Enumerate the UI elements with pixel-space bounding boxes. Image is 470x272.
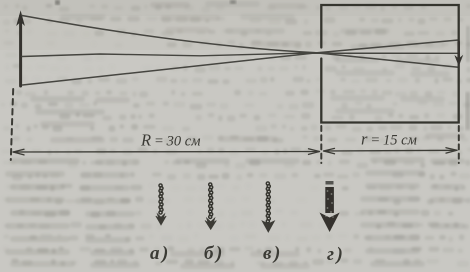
image arrow on back wall (small, pointing down) bbox=[455, 42, 463, 66]
camera box (left wall with pinhole gap, top, right, bottom) bbox=[321, 5, 458, 123]
option arrow b) : thin chain, ragged head bbox=[205, 183, 216, 230]
dimension line r (pinhole to back wall) bbox=[324, 148, 458, 154]
svg-text:а): а) bbox=[150, 243, 168, 264]
dashed extension below pinhole wall bbox=[320, 126, 322, 163]
dimension line R (object to pinhole) bbox=[13, 149, 320, 155]
top ray: object tip to pinhole, then to image tip bbox=[22, 16, 459, 68]
option arrow g) : bold thick arrow bbox=[320, 181, 340, 232]
bottom ray: object base to pinhole, then up to back wall bbox=[23, 40, 459, 85]
svg-text:б): б) bbox=[204, 243, 222, 264]
dashed extension below back wall bbox=[458, 126, 460, 163]
object arrow (bold, pointing up, at left) bbox=[17, 12, 25, 87]
svg-text:R = 30 см: R = 30 см bbox=[140, 131, 201, 150]
option arrow a) : thin chain, small ragged head bbox=[156, 184, 166, 225]
optical axis bbox=[22, 53, 459, 56]
subtle scan shading top bbox=[0, 0, 470, 50]
dashed extension below object bbox=[11, 89, 13, 160]
edge smudges bbox=[466, 26, 470, 62]
svg-text:r = 15 см: r = 15 см bbox=[361, 130, 417, 149]
option arrow v) : thin chain, solid triangular head bbox=[262, 182, 274, 232]
